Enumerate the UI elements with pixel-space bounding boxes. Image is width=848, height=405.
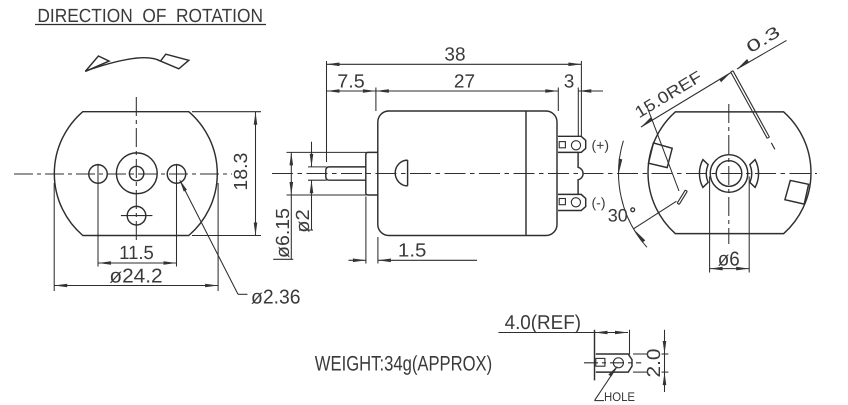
- dim 18.3 line: [255, 112, 257, 236]
- svg-text:0.3: 0.3: [743, 23, 783, 57]
- svg-text:ø6: ø6: [718, 249, 740, 271]
- dim 1.5 arrows: [353, 259, 391, 263]
- dim 27 line: [376, 90, 558, 92]
- dim dia6.15 extension lines: [287, 152, 367, 195]
- title DIRECTION OF ROTATION: [37, 6, 263, 27]
- svg-text:11.5: 11.5: [119, 243, 154, 264]
- rear big slot end tick: [771, 143, 775, 150]
- dim 27 text: [454, 71, 475, 92]
- svg-text:2.0: 2.0: [644, 349, 665, 378]
- dim 38 line: [327, 63, 582, 65]
- dim 1.5 extension lines: [366, 197, 378, 264]
- dim 18.3 text: [231, 153, 252, 191]
- rear right crescent window: [750, 160, 759, 188]
- dim dia6.15 line: [290, 152, 292, 259]
- rear vertical centerline: [728, 104, 730, 244]
- dim 38 text: [444, 44, 465, 65]
- rear 30 deg line: [634, 201, 677, 229]
- weight note: [315, 353, 492, 376]
- detail tab outline: [596, 354, 632, 372]
- rotation arrow arc: [85, 58, 160, 71]
- dim dia24.2 extension lines: [54, 183, 218, 291]
- svg-text:ø2: ø2: [293, 209, 314, 233]
- leader dia2.36 tick: [238, 293, 248, 295]
- dim dia24.2 text: [109, 265, 162, 287]
- dim 3 text: [564, 71, 575, 92]
- dim 0.3 text: [743, 23, 783, 57]
- title underline: [35, 24, 266, 26]
- detail hole: [613, 358, 623, 368]
- label minus: [592, 194, 606, 210]
- svg-text:1.5: 1.5: [398, 241, 427, 262]
- svg-text:ø24.2: ø24.2: [109, 265, 162, 287]
- front view outline: [54, 112, 217, 236]
- side view body: [378, 111, 557, 236]
- dim 30 deg arc: [619, 141, 647, 248]
- dim 15.0REF text: [632, 68, 706, 122]
- rear inner circle: [716, 161, 742, 187]
- dim dia24.2 arrows: [54, 284, 218, 288]
- front horizontal centerline: [14, 173, 232, 175]
- svg-text:3: 3: [564, 71, 575, 92]
- rotation arrow left open arrowhead: [85, 56, 109, 71]
- dim 38 arrows: [327, 63, 582, 67]
- front right mounting hole: [167, 165, 186, 184]
- dim 1.5 lines: [349, 259, 366, 261]
- dim dia6.15 arrows: [290, 152, 294, 195]
- dim dia2 foot: [299, 229, 313, 231]
- side view bearing boss: [366, 152, 378, 195]
- dim dia2 extension lines: [308, 167, 327, 180]
- terminal tab minus: [558, 194, 586, 210]
- hole leader line: [595, 367, 618, 401]
- rotation arrow right open quad: [161, 54, 189, 69]
- dim dia6.15 text: [273, 208, 294, 258]
- dim dia6 line: [710, 268, 750, 270]
- rear slot cap bottom: [767, 137, 769, 138]
- dim 11.5 line: [98, 262, 177, 264]
- detail slot: [596, 358, 605, 366]
- rear view outline: [648, 112, 811, 234]
- dim 18.3 arrows: [254, 112, 258, 236]
- main horizontal centerline: [272, 173, 817, 175]
- dim 38 extension lines: [327, 61, 582, 162]
- detail centerline: [584, 362, 641, 364]
- dim dia6 text: [718, 249, 740, 271]
- leader dia2.36 line: [180, 181, 238, 295]
- rear big slot line A: [731, 72, 768, 138]
- dim 4.0REF arrows: [595, 331, 629, 335]
- rear boss circle dia6: [710, 155, 748, 193]
- svg-text:7.5: 7.5: [337, 71, 365, 92]
- svg-text:38: 38: [444, 44, 465, 65]
- front vertical centerline: [135, 97, 137, 241]
- rear bottom-right terminal square: [785, 180, 809, 204]
- dim dia2 arrows: [310, 154, 314, 193]
- terminal plus hole: [571, 141, 580, 150]
- side view vent D-hole: [395, 160, 407, 186]
- front bottom hole: [127, 206, 146, 225]
- dim 15.0REF and 0.3 line: [641, 73, 731, 128]
- dim 18.3 extension lines: [192, 112, 261, 236]
- dim 2.0 text: [644, 349, 665, 378]
- label plus: [592, 137, 610, 153]
- dim 4.0REF text: [505, 312, 581, 334]
- dim 3 tail line: [578, 90, 603, 92]
- svg-text:WEIGHT:34g(APPROX): WEIGHT:34g(APPROX): [315, 353, 492, 376]
- dim 11.5 arrows: [98, 261, 177, 265]
- side view shaft: [326, 167, 366, 180]
- rear big slot line B: [733, 71, 769, 137]
- rear steep extension line: [647, 107, 679, 192]
- terminal minus slot: [559, 199, 565, 205]
- dim dia2 lines: [311, 142, 313, 167]
- dim 30 deg arrows: [619, 159, 646, 243]
- dim 7.5 text: [337, 71, 365, 92]
- rear small slot: [679, 191, 687, 204]
- hole leader arrow: [608, 366, 618, 377]
- dim 15.0REF arrows: [641, 59, 749, 127]
- side view endcap joint line: [525, 111, 527, 236]
- svg-text:ø6.15: ø6.15: [273, 208, 294, 258]
- svg-text:(+): (+): [592, 137, 610, 153]
- dim 11.5 text: [119, 243, 154, 264]
- endcap edge with bump: [578, 153, 583, 194]
- rear left crescent window: [699, 160, 708, 188]
- leader dia2.36 arrow: [179, 179, 187, 191]
- svg-text:30: 30: [608, 205, 628, 225]
- dim dia6 arrows: [710, 267, 750, 271]
- terminal tab plus: [558, 136, 586, 152]
- terminal minus hole: [571, 198, 580, 207]
- dim 11.5 extension lines: [98, 164, 177, 267]
- dim 2.0 arrows: [663, 341, 667, 385]
- front bottom hole tick: [121, 215, 152, 217]
- rear top-left terminal square: [649, 143, 673, 168]
- svg-text:27: 27: [454, 71, 475, 92]
- front bearing boss outer circle: [116, 153, 157, 194]
- dims 7.5 27 3 arrows: [327, 89, 592, 93]
- terminal plus slot: [559, 142, 565, 148]
- front left mounting hole: [89, 165, 108, 184]
- dim 2.0 line: [664, 330, 666, 392]
- svg-text:HOLE: HOLE: [604, 390, 635, 404]
- dim dia6 extension lines: [710, 177, 750, 273]
- dim 30 deg text: [608, 205, 628, 225]
- dim 4.0REF ext line: [629, 330, 631, 355]
- detail face line: [594, 330, 596, 381]
- dim 2.0 extension lines: [633, 354, 668, 372]
- dim dia24.2 line: [54, 285, 218, 287]
- dim 4.0REF line: [498, 332, 628, 334]
- front shaft circle: [129, 166, 143, 180]
- svg-text:18.3: 18.3: [231, 153, 252, 191]
- svg-text:4.0(REF): 4.0(REF): [505, 312, 581, 334]
- leader dia2.36 text: [251, 287, 301, 309]
- rear slot cap top: [731, 71, 733, 72]
- dim dia2 text: [293, 209, 314, 233]
- svg-text:(-): (-): [592, 194, 606, 210]
- svg-text:ø2.36: ø2.36: [251, 287, 301, 309]
- hole label: [604, 390, 635, 404]
- dim 7.5 line: [327, 90, 376, 92]
- dim 1.5 text: [398, 241, 427, 262]
- dim dia6.15 foot: [273, 258, 293, 260]
